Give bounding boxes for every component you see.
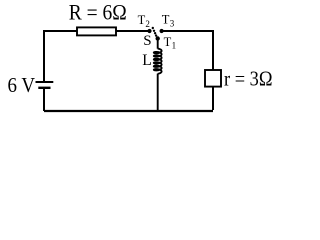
svg-text:2: 2 [145, 19, 150, 29]
svg-text:T: T [162, 13, 170, 27]
svg-text:6 V: 6 V [8, 73, 36, 97]
svg-text:T: T [164, 35, 172, 49]
svg-text:1: 1 [172, 41, 177, 51]
svg-text:T: T [138, 13, 146, 27]
svg-text:L: L [142, 52, 151, 69]
svg-text:S: S [143, 33, 151, 49]
svg-text:r = 3Ω: r = 3Ω [224, 67, 273, 91]
svg-text:R = 6Ω: R = 6Ω [69, 1, 127, 25]
svg-text:3: 3 [170, 18, 175, 28]
